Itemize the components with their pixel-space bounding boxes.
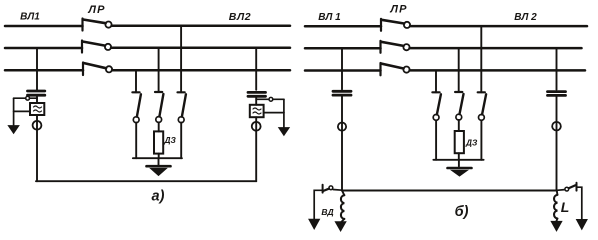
wire bus L3 right segment (b) bbox=[410, 69, 585, 72]
wire from QS3 to rail bbox=[180, 123, 182, 159]
wire bracket stub top with spark gap bbox=[14, 96, 37, 100]
grounding switch QS1 bbox=[132, 92, 141, 122]
wire bracket vertical (right) bbox=[283, 99, 285, 127]
wire tap from L1 to grounding switch 6 bbox=[480, 26, 482, 92]
lamp HL1 bbox=[33, 121, 42, 130]
wire tap from L2 to indicator 4 bbox=[556, 48, 558, 90]
wire tap from L1 to grounding switch 3 bbox=[180, 26, 182, 92]
svg-text:ЛР: ЛР bbox=[87, 4, 105, 16]
svg-text:L: L bbox=[561, 199, 570, 215]
wire bbox=[255, 98, 257, 105]
wire bbox=[36, 97, 38, 104]
wire tap from L3 to grounding switch 4 bbox=[435, 71, 437, 93]
lamp HL3 bbox=[338, 123, 346, 131]
svg-text:ДЗ: ДЗ bbox=[465, 137, 478, 147]
wire rail to ground (b) bbox=[458, 160, 460, 167]
reactor coil ВД bbox=[341, 191, 344, 223]
wire through lamp down to bottom rail bbox=[36, 121, 38, 181]
wire through lamp to junction bbox=[556, 122, 558, 191]
svg-text:ВЛ2: ВЛ2 bbox=[229, 11, 251, 23]
svg-text:ДЗ: ДЗ bbox=[164, 135, 177, 145]
wire bus L3 left segment bbox=[5, 69, 83, 72]
ground arrow (indicator 1) bbox=[8, 126, 19, 134]
ground arrow (coil ВД) bbox=[335, 222, 346, 231]
disconnector ЛР pole 3 bbox=[83, 63, 112, 76]
capacitor C3 bbox=[333, 91, 351, 95]
disconnector ЛР pole 1 bbox=[83, 19, 112, 31]
wire to right ground bbox=[577, 187, 582, 220]
wire bus L1 right segment (b) bbox=[410, 25, 587, 28]
lamp HL4 bbox=[552, 122, 561, 131]
wire bracket stub top with spark gap (right) bbox=[256, 97, 284, 101]
wire bbox=[341, 96, 343, 122]
wire bracket stub to box (right) bbox=[264, 112, 284, 114]
grounding switch QS2 bbox=[155, 92, 163, 122]
wire bus L2 right segment bbox=[111, 47, 290, 50]
capacitor C1 bbox=[28, 91, 45, 95]
wire tap from L2 to indicator 3 bbox=[341, 48, 343, 89]
wire tap from L2 to grounding switch 5 bbox=[458, 48, 460, 92]
wire from QS2 to resistor bbox=[158, 122, 160, 131]
ground symbol (variant b middle) bbox=[448, 168, 472, 176]
wire from QS1 to rail bbox=[135, 123, 137, 159]
arrester box F2 bbox=[250, 105, 264, 117]
capacitor C2 bbox=[248, 92, 266, 96]
grounding switch QS3 bbox=[178, 92, 186, 122]
wire to left ground bbox=[314, 190, 322, 219]
wire bottom rail (variant a) bbox=[36, 180, 256, 182]
wire bus L2 left segment (b) bbox=[305, 47, 381, 50]
wire through lamp to junction bbox=[341, 123, 343, 191]
wire bracket vertical bbox=[13, 98, 15, 125]
reactor coil L bbox=[554, 191, 557, 222]
disconnector ЛР pole 3 (b) bbox=[381, 63, 410, 75]
wire tap from L2 to grounding switch 2 bbox=[158, 48, 160, 92]
svg-text:а): а) bbox=[152, 189, 165, 205]
wire bus L2 left segment bbox=[5, 47, 82, 50]
wire bus L3 right segment bbox=[112, 69, 290, 72]
wire bus L1 left segment (b) bbox=[305, 25, 381, 28]
wire bottom rail (variant b) bbox=[342, 190, 557, 192]
wire bus L1 left segment bbox=[5, 25, 83, 28]
wire through lamp down to bottom rail bbox=[255, 122, 257, 181]
wire rail to ground bbox=[158, 158, 160, 164]
wire bracket stub to box bbox=[14, 110, 30, 112]
wire bus L2 right segment (b) bbox=[410, 47, 582, 50]
svg-text:ЛР: ЛР bbox=[389, 4, 407, 16]
wire tap from L3 to grounding switch 1 bbox=[135, 70, 137, 92]
resistor ДЗ (variant b) bbox=[455, 131, 464, 153]
wire bbox=[36, 115, 38, 121]
ground symbol (variant a middle) bbox=[147, 166, 171, 175]
svg-text:ВЛ 2: ВЛ 2 bbox=[514, 12, 537, 23]
ground arrow (coil L) bbox=[551, 221, 562, 230]
wire bus L1 right segment bbox=[112, 25, 290, 28]
ground arrow (S1) bbox=[309, 219, 320, 229]
wire bus L3 left segment (b) bbox=[305, 69, 381, 72]
svg-text:ВЛ1: ВЛ1 bbox=[20, 12, 40, 23]
svg-text:ВЛ 1: ВЛ 1 bbox=[318, 12, 341, 23]
wire from QS4 to rail bbox=[435, 120, 437, 160]
svg-text:ВД: ВД bbox=[321, 207, 333, 217]
svg-text:б): б) bbox=[455, 204, 469, 220]
resistor ДЗ (variant a) bbox=[154, 131, 163, 153]
wire resistor to rail bbox=[458, 153, 460, 160]
ground arrow (S2) bbox=[577, 220, 588, 230]
wire switch rail (variant a) bbox=[133, 157, 182, 159]
grounding switch QS6 bbox=[478, 92, 486, 120]
grounding switch QS4 bbox=[432, 92, 441, 120]
disconnector ЛР pole 2 (b) bbox=[381, 41, 410, 53]
disconnector ЛР pole 1 (b) bbox=[381, 19, 410, 31]
ground arrow (indicator 2) bbox=[279, 128, 290, 136]
arrester box F1 bbox=[30, 103, 44, 115]
wire bbox=[255, 117, 257, 122]
wire tap from L2 to indicator 2 bbox=[255, 48, 257, 90]
wire from QS6 to rail bbox=[480, 120, 482, 160]
knife switch S1 (bottom left) bbox=[323, 185, 342, 193]
wire from QS5 to resistor bbox=[458, 120, 460, 131]
wire switch rail (variant b) bbox=[433, 159, 483, 161]
lamp HL2 bbox=[252, 122, 261, 131]
disconnector ЛР pole 2 bbox=[82, 41, 111, 53]
capacitor C4 bbox=[548, 92, 566, 96]
wire resistor to rail bbox=[158, 154, 160, 159]
grounding switch QS5 bbox=[455, 92, 463, 120]
wire tap from L2 to indicator 1 bbox=[36, 48, 38, 90]
knife switch S2 (bottom right) bbox=[557, 183, 577, 191]
wire bbox=[556, 97, 558, 122]
